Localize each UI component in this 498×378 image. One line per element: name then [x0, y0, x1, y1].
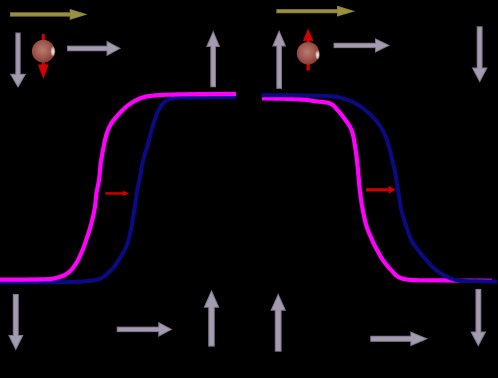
electron sphere 2	[297, 42, 320, 65]
domain wall profile right, blue (shifted)	[262, 95, 498, 281]
magnetization arrow right, bottom-right	[371, 332, 427, 346]
magnetization arrow up, bottom-middle-right	[271, 294, 285, 351]
magnetization arrow up, above left wall	[207, 32, 220, 87]
sphere 1 highlight	[50, 46, 55, 57]
current arrow right	[277, 6, 354, 16]
magnetization arrow right, top-left	[68, 41, 121, 55]
wall displacement arrow right	[366, 186, 396, 194]
current arrow left	[10, 9, 86, 19]
magnetization arrow down, top-far-right	[473, 27, 487, 82]
electron sphere 1	[32, 40, 55, 63]
magnetization arrow right, bottom-left	[117, 323, 171, 337]
magnetization arrow down, bottom-far-right	[471, 289, 485, 345]
electron spin arrow up (behind sphere 2)	[303, 29, 314, 71]
domain wall profile right, magenta	[262, 98, 492, 280]
sphere 2 highlight	[315, 50, 320, 60]
electron spin arrow down (behind sphere 1)	[38, 34, 49, 79]
wall displacement arrow left	[105, 191, 129, 197]
magnetization arrow up, above right wall	[273, 31, 286, 88]
domain wall profile left, magenta	[0, 94, 236, 280]
domain wall profile left, blue (shifted)	[0, 97, 236, 282]
magnetization arrow down, top-left	[11, 33, 26, 87]
magnetization arrow up, bottom-middle-left	[204, 291, 218, 346]
magnetization arrow down, bottom-left	[9, 295, 23, 350]
magnetization arrow right, top-right	[334, 39, 389, 52]
